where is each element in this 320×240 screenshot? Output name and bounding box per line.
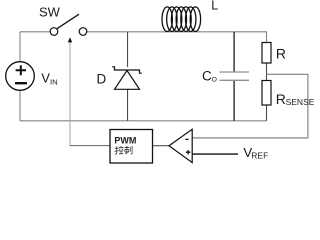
plus sign in source: [16, 65, 26, 75]
wire Vin top stub: [19, 32, 21, 62]
svg-text:C: C: [202, 68, 212, 83]
svg-text:SW: SW: [39, 5, 61, 20]
wire Vref to comparator plus input: [193, 153, 239, 155]
switch contact circle left: [50, 28, 58, 36]
wire PWM input from switch control line: [70, 145, 111, 147]
svg-text:R: R: [276, 46, 286, 62]
wire capacitor branch bottom: [233, 80, 235, 121]
comparator op-amp triangle: [169, 129, 192, 162]
inductor L coil: [162, 7, 201, 32]
svg-text:REF: REF: [251, 151, 268, 161]
label kongzhi (Chinese control) drawn as vector strokes: [115, 146, 132, 154]
svg-text:IN: IN: [50, 77, 58, 86]
svg-text:O: O: [212, 76, 217, 83]
resistor RSENSE: [262, 81, 271, 106]
wire bottom rail: [20, 120, 267, 122]
voltage source VIN circle: [6, 62, 35, 91]
minus sign in source: [15, 82, 27, 84]
wire R to Rsense junction: [266, 63, 268, 81]
wire diode branch bottom: [127, 89, 129, 121]
kong (left char): hand radical: [115, 146, 119, 154]
zhi (right char): left half: [125, 146, 129, 154]
wire diode branch top: [127, 32, 129, 67]
wire top rail from Vin to switch: [20, 31, 50, 33]
wire switch control vertical: [69, 42, 71, 146]
svg-text:PWM: PWM: [114, 135, 136, 145]
switch control arrow head: [68, 37, 72, 42]
resistor R: [262, 43, 271, 64]
wire feedback into inverting input: [193, 137, 308, 139]
wire comparator output to PWM box: [153, 145, 170, 147]
capacitor Co plates: [220, 72, 250, 80]
svg-text:L: L: [211, 0, 218, 13]
svg-text:SENSE: SENSE: [286, 97, 315, 107]
kong (left char): cave roof and legs: [119, 146, 123, 151]
wire feedback loop: [267, 74, 308, 138]
zhi (right char): knife radical: [130, 146, 132, 154]
wire Rsense bottom stub: [266, 105, 268, 121]
diode D schottky: [112, 67, 142, 90]
wire top rail from switch to R corner: [87, 32, 267, 43]
PWM control box: [110, 130, 153, 164]
switch contact circle right: [79, 28, 87, 36]
wire Vin bottom stub: [19, 90, 21, 121]
switch lever: [57, 14, 79, 29]
svg-text:R: R: [276, 91, 286, 107]
kong (left char): gong base: [119, 151, 123, 154]
minus sign at inverting input: [185, 138, 188, 140]
plus sign at non-inverting input: [186, 150, 191, 155]
svg-text:D: D: [97, 72, 107, 87]
svg-text:V: V: [41, 70, 50, 85]
wire capacitor branch top: [233, 32, 235, 72]
